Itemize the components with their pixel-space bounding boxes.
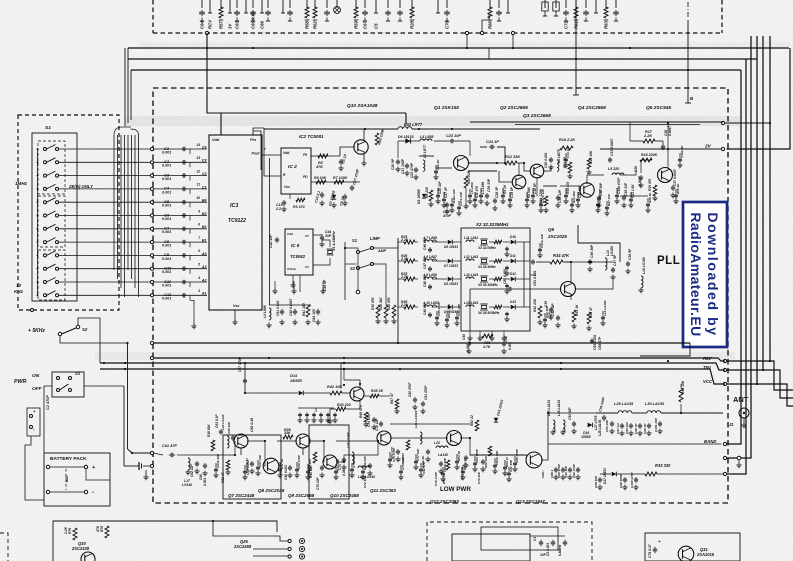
top sheet component R60 — [489, 0, 491, 8]
svg-text:R24 680: R24 680 — [572, 191, 576, 203]
svg-text:0.001: 0.001 — [162, 164, 171, 168]
inductor L9 L889 — [424, 277, 437, 279]
svg-text:C38 5P: C38 5P — [628, 248, 632, 260]
resistor R41 180 — [306, 305, 310, 317]
extra TX component R37 1K — [279, 462, 281, 467]
capacitor C71 0.35 — [343, 457, 345, 459]
resistor R26 2.3K — [404, 259, 415, 263]
capacitor C34 470P — [446, 202, 448, 204]
svg-text:33P: 33P — [325, 234, 332, 238]
top sheet component C66 — [261, 0, 263, 8]
extra TX component C67 33P — [257, 460, 259, 465]
svg-text:R44b 220: R44b 220 — [363, 456, 367, 470]
resistor R18 220K — [640, 158, 652, 162]
op-amp IC1 TC9122 programmable divider — [209, 135, 262, 310]
svg-text:R6 10K: R6 10K — [314, 176, 327, 180]
capacitor C37 5P — [612, 267, 614, 269]
svg-text:+ 5KHz: + 5KHz — [28, 328, 45, 334]
svg-text:C3: C3 — [202, 159, 207, 163]
capacitor C44 33P — [321, 235, 323, 237]
extra component C18 8P — [532, 188, 534, 193]
wire - crystal bank output to C51 — [530, 274, 536, 276]
svg-text:C73 33P: C73 33P — [336, 458, 340, 471]
wire - C24 links — [480, 146, 487, 148]
node - board edge terminal row 7 — [150, 227, 153, 230]
switch S1 pole row 9 — [44, 254, 47, 257]
wire - top right small jog — [488, 48, 490, 59]
top sheet component R57 — [220, 0, 222, 8]
svg-text:R55 1K: R55 1K — [676, 183, 680, 194]
wire - IC3 X7 connections — [313, 234, 322, 235]
svg-text:Q3 2SC2668: Q3 2SC2668 — [523, 113, 551, 119]
wire - y122 feed line — [470, 121, 723, 123]
wire - IC3 Vss ground stub — [292, 275, 294, 284]
svg-text:R44 470: R44 470 — [566, 182, 570, 194]
resistor R46b 47 vertical — [446, 460, 450, 470]
svg-text:0.001: 0.001 — [162, 257, 171, 261]
capacitor C35 33P — [623, 195, 625, 197]
resistor R3 470 — [296, 198, 305, 202]
svg-text:R20 41K: R20 41K — [379, 297, 383, 310]
op-amp IC3 TC5082 reference divider — [285, 229, 313, 275]
svg-text:0.001: 0.001 — [162, 217, 171, 221]
transistor Q8 2SC2026 (shield box around Q7/Q8) — [223, 435, 281, 499]
resistor R19 470 vertical — [653, 185, 657, 196]
capacitor C3 0.001 — [154, 175, 207, 177]
svg-text:C61 47P: C61 47P — [162, 444, 177, 448]
svg-text:Q10 2SC2458: Q10 2SC2458 — [330, 493, 359, 498]
wire - PWR switch to board — [84, 385, 124, 387]
capacitor C38 5P — [627, 261, 629, 263]
svg-text:Q7 2SC2448: Q7 2SC2448 — [228, 493, 255, 498]
resistor R7 100K — [334, 180, 344, 184]
svg-text:X5 36.16MHz: X5 36.16MHz — [477, 283, 498, 287]
capacitor C6 0.001 — [154, 215, 207, 217]
svg-text:C2 470P: C2 470P — [46, 395, 50, 410]
svg-text:Q13 2SC1947: Q13 2SC1947 — [516, 499, 545, 504]
capacitor C17 470P — [351, 185, 353, 187]
extra TX component R51 470 — [389, 452, 391, 457]
svg-text:C55 470P: C55 470P — [437, 301, 441, 316]
switch S1 pole row 5 — [44, 201, 47, 204]
top sheet component (unlabeled) — [595, 0, 597, 8]
resistor trim row 3 — [494, 277, 502, 280]
resistor R40 82K vertical — [313, 452, 317, 463]
diode D17 15553 — [612, 472, 617, 477]
svg-text:D17 15553: D17 15553 — [603, 468, 607, 484]
svg-text:C85b 10P: C85b 10P — [443, 457, 447, 472]
svg-text:C99 7P: C99 7P — [643, 423, 647, 434]
svg-text:0.0047: 0.0047 — [638, 176, 642, 186]
svg-text:L11 L842: L11 L842 — [464, 236, 478, 240]
svg-text:R81 47: R81 47 — [221, 472, 225, 483]
svg-text:D11: D11 — [510, 254, 516, 258]
wire - T5V extension and drop x780 — [727, 370, 793, 398]
svg-text:Q12 2SC2083: Q12 2SC2083 — [430, 499, 459, 504]
inductor L18 LS140 vertical — [227, 436, 229, 448]
resistor R81 47 vertical — [226, 460, 230, 470]
svg-text:8: 8 — [198, 223, 200, 227]
switch S1 outer box — [32, 133, 77, 301]
capacitor C5 0.001 — [154, 201, 207, 203]
node - small jack below BAND — [737, 456, 741, 460]
svg-text:33K: 33K — [284, 431, 291, 435]
svg-text:C67: C67 — [363, 20, 368, 29]
svg-text:C71: C71 — [564, 20, 569, 29]
inductor L10 L887 — [424, 305, 437, 307]
extra component C27 3P — [443, 192, 445, 197]
wire - row 8 to board edge — [59, 241, 151, 243]
wire - crystal row 1 — [398, 241, 404, 243]
capacitor C94 100P — [603, 415, 605, 417]
extra RF component R29 56 — [647, 198, 649, 202]
wire - main board dashed outline — [153, 88, 728, 503]
resistor R45 39 — [370, 394, 379, 398]
ground - Q6 bias — [539, 320, 541, 323]
wire - Q6 collector tank — [565, 262, 571, 283]
extra TX component R54 47 — [504, 460, 506, 465]
capacitor C74 470P — [373, 417, 375, 419]
svg-text:2SC2458: 2SC2458 — [233, 544, 252, 549]
resistor R34 47K — [550, 260, 563, 264]
wire - mic sheet dashed outline — [427, 522, 592, 561]
node - bus junction dots — [206, 47, 208, 49]
svg-text:R76: R76 — [68, 528, 72, 534]
svg-text:TC5082: TC5082 — [290, 254, 306, 259]
svg-text:L32 LR77: L32 LR77 — [404, 122, 423, 127]
svg-text:C21 100P: C21 100P — [401, 158, 405, 174]
capacitor C49 68P — [429, 312, 431, 314]
top sheet component C65 0.04 — [252, 0, 254, 8]
svg-text:L6 L899: L6 L899 — [470, 182, 474, 194]
svg-text:10: 10 — [16, 283, 22, 288]
ground - Q6 tank — [589, 267, 591, 270]
inductor L29 LA135 — [618, 411, 632, 413]
svg-text:R46 470: R46 470 — [359, 405, 363, 418]
wire - right bus vertical x757 (VCC) — [756, 36, 758, 384]
ground - driver stage — [365, 422, 367, 425]
svg-text:R43 220: R43 220 — [337, 403, 351, 407]
switch S1 pole row 11 — [44, 281, 47, 284]
svg-text:C88 /: C88 / — [541, 469, 545, 478]
svg-text:R8 56K: R8 56K — [527, 186, 531, 198]
svg-text:L18 L841: L18 L841 — [464, 273, 479, 277]
top sheet component C5 — [375, 0, 377, 8]
wire - audio sheet top edge — [53, 521, 277, 561]
wire - Q13 output to filter — [541, 413, 596, 460]
switch S1 pole row 1 — [44, 148, 47, 151]
inductor L7 L899 — [424, 240, 437, 242]
transistor Q14 driver — [350, 387, 364, 401]
wire - base feeds Q2 Q3 — [499, 171, 513, 182]
capacitor C78 0.47 — [654, 547, 656, 549]
svg-text:Vdd: Vdd — [283, 151, 290, 155]
svg-text:C65 12P: C65 12P — [227, 421, 231, 434]
svg-text:R53b 47: R53b 47 — [463, 458, 467, 470]
switch S1 pole row 6 — [44, 214, 47, 217]
svg-text:R51 470: R51 470 — [390, 447, 394, 459]
resistor R10 22K vertical — [464, 176, 468, 188]
svg-text:C53 0.001: C53 0.001 — [593, 334, 597, 350]
svg-text:R10 22K: R10 22K — [467, 170, 471, 184]
inductor L19 LS140 vertical — [352, 452, 354, 464]
extra TX component C87 15P — [508, 467, 510, 471]
svg-text:C98 7P: C98 7P — [634, 423, 638, 434]
wire - VCC extension and drop x787 — [727, 384, 793, 406]
svg-text:L30 LA130: L30 LA130 — [645, 402, 665, 406]
connector jack plug symbol — [124, 465, 139, 467]
svg-text:L16 LS160: L16 LS160 — [642, 257, 646, 274]
resistor R6 10K — [316, 180, 326, 184]
extra PLL component C51b 12P — [539, 243, 541, 247]
svg-text:R52 22: R52 22 — [470, 415, 474, 426]
svg-text:Q10 2SA1048: Q10 2SA1048 — [347, 103, 378, 109]
ground - C44 — [321, 242, 323, 245]
wire - TX input row — [188, 454, 235, 456]
svg-text:R29 56: R29 56 — [648, 193, 652, 203]
svg-text:Q6: Q6 — [548, 227, 555, 232]
svg-text:R45 39: R45 39 — [371, 389, 383, 393]
svg-text:X6 36.505MHz: X6 36.505MHz — [477, 311, 500, 315]
node - terminal 2V x723 y149 — [721, 147, 724, 150]
capacitor C65 12P — [232, 435, 234, 437]
svg-text:0.001: 0.001 — [162, 204, 171, 208]
resistor trim row 1 — [494, 240, 502, 243]
svg-text:C47b 12P: C47b 12P — [541, 188, 545, 203]
capacitor C80 470P — [414, 397, 416, 399]
capacitor C98b 10P — [599, 477, 601, 479]
transistor Q5 — [658, 168, 673, 183]
svg-text:R12 33K: R12 33K — [505, 155, 520, 159]
resistor R30 47K vertical — [376, 305, 380, 318]
svg-text:C83 100P: C83 100P — [475, 448, 479, 463]
inductor L26 LA121 vertical — [563, 420, 565, 432]
svg-text:R59: R59 — [354, 20, 359, 29]
svg-text:C89 470P: C89 470P — [557, 463, 561, 478]
top sheet component (unlabeled) — [555, 0, 557, 8]
op-amp IC2 TC5081 phase detector — [281, 148, 311, 194]
svg-text:C27 3P: C27 3P — [444, 186, 448, 198]
capacitor C92 470P — [577, 467, 579, 469]
svg-text:2SA1015: 2SA1015 — [696, 552, 715, 557]
extra TX component C64b 10P — [215, 463, 217, 467]
svg-text:470P: 470P — [442, 214, 452, 218]
capacitor C24 1P — [489, 146, 491, 148]
svg-text:C96 210: C96 210 — [625, 422, 629, 434]
diode D3 15V59 — [332, 195, 336, 199]
wire - R8V extension and drop x774 — [727, 361, 793, 390]
extra PLL component C56 33P — [456, 311, 458, 315]
wire - battery feed — [43, 408, 45, 453]
capacitor C82 470P — [427, 449, 429, 451]
transistor Q3 — [530, 164, 544, 178]
transistor Q10 2SA1048 — [354, 140, 368, 154]
svg-text:R11b 100: R11b 100 — [452, 189, 456, 203]
svg-text:D5 16555: D5 16555 — [417, 189, 421, 204]
svg-text:Vdd: Vdd — [287, 232, 293, 236]
wire - row 9 to board edge — [59, 254, 151, 256]
svg-text:2.2K: 2.2K — [400, 275, 409, 279]
switch S1 inner dashed group 2 — [38, 196, 65, 247]
wire - row 4 to board edge — [59, 188, 151, 190]
ground - R36 area — [468, 349, 470, 352]
inductor L4 L899 vertical — [269, 308, 271, 320]
inductor L5 220 — [612, 173, 624, 175]
svg-text:D13: D13 — [510, 300, 516, 304]
transistor Q1 FET — [454, 156, 469, 171]
diode D6 15133 — [405, 138, 410, 143]
top sheet component (unlabeled) — [507, 0, 509, 8]
capacitor C23 10P — [449, 140, 451, 142]
node - terminal on selector box bottom — [31, 309, 34, 312]
wire - S1 common bus vertical — [37, 149, 39, 295]
extra RF component R55 1K — [675, 189, 677, 193]
wire - crystal bank right common — [523, 242, 525, 307]
node - board edge terminal TX input — [150, 451, 153, 454]
svg-text:2.2K: 2.2K — [64, 526, 68, 535]
capacitor C72 10P — [380, 421, 382, 423]
svg-text:C87 15P: C87 15P — [509, 459, 513, 472]
wire - TX rail y455 extension — [470, 454, 527, 456]
wire - row 6 to board edge — [59, 215, 151, 217]
node - terminal VCC — [723, 382, 726, 385]
wire - right bus vertical x763 (T5V) — [762, 36, 764, 370]
svg-text:LS140: LS140 — [182, 483, 192, 487]
svg-text:BAT: BAT — [65, 474, 69, 482]
svg-text:B1: B1 — [202, 239, 207, 243]
capacitor C3 47P mic — [564, 540, 566, 542]
wire - row 1 to board edge — [59, 148, 151, 150]
wire - crystal row 1 inner link — [489, 241, 494, 243]
svg-text:D7 15153: D7 15153 — [444, 264, 458, 268]
svg-text:L3 L899: L3 L899 — [481, 182, 485, 194]
crystal bank enclosure box — [461, 228, 530, 331]
capacitor C66 0.001 — [204, 463, 206, 465]
wire - PLL RF line y129 with L32 — [264, 128, 398, 130]
svg-text:ZE(G) ONLY: ZE(G) ONLY — [68, 184, 94, 189]
capacitor C33 0.0047 — [609, 157, 611, 159]
ground - R30 R20 R22 — [377, 319, 379, 322]
svg-text:3: 3 — [198, 289, 200, 293]
resistor R25 2.2K — [404, 277, 415, 281]
node - board edge terminal row 8 — [150, 241, 153, 244]
transistor Q13 2SC1947 — [526, 452, 542, 468]
wire - crystal row 2 inner link — [489, 260, 494, 262]
wire - top sheet dashed left edge — [152, 0, 154, 33]
capacitor C81b 470P — [422, 401, 424, 403]
switch S1 pole row 8 — [44, 241, 47, 244]
resistor R28 2.2K — [404, 305, 415, 309]
capacitor C11 0.001 — [154, 281, 207, 283]
node - board edge terminal row 6 — [150, 214, 153, 217]
svg-text:C52 39P: C52 39P — [551, 303, 555, 316]
resistor R38 82K vertical — [211, 440, 215, 451]
svg-text:C29 33P: C29 33P — [487, 178, 491, 192]
inductor L5 L888 — [420, 139, 432, 141]
svg-text:R38 82K: R38 82K — [207, 424, 211, 437]
resistor trim row 4 — [494, 305, 502, 308]
wire - bank bottom stubs — [469, 331, 471, 337]
node - junctions on mid buses — [343, 362, 345, 364]
top sheet component R62 — [314, 0, 316, 8]
svg-text:Q1 2SK192: Q1 2SK192 — [434, 105, 459, 111]
svg-text:L14 LS160: L14 LS160 — [603, 300, 607, 316]
wire - bottom partial box left edge — [0, 533, 8, 561]
inductor L4 LW75 vertical — [557, 160, 559, 171]
resistor R34 15K vertical — [679, 388, 683, 402]
wire - crystal row 4 — [398, 306, 404, 308]
svg-text:Vss: Vss — [284, 185, 290, 189]
svg-text:R3 470: R3 470 — [293, 205, 305, 209]
svg-text:L5 220: L5 220 — [608, 167, 619, 171]
resistor R39 33K — [283, 435, 293, 439]
wire - RF interstage y171 — [468, 170, 497, 172]
transistor Q6 — [561, 282, 576, 297]
wire - mid bus y358 — [150, 356, 153, 359]
svg-text:C24 1P: C24 1P — [486, 140, 499, 144]
wire - terminal x723 y123 stub — [725, 122, 770, 124]
svg-text:R53 10: R53 10 — [457, 451, 461, 461]
svg-text:IC1: IC1 — [230, 203, 239, 209]
wire - battery to PWR switch vertical — [86, 469, 110, 480]
svg-text:2.2: 2.2 — [275, 207, 281, 211]
wire - crystal row 4 inner link — [489, 306, 494, 308]
resistor R2 47K — [318, 154, 328, 158]
resistor R76 2.2K vertical — [73, 528, 77, 540]
capacitor C101 15P — [659, 421, 661, 423]
svg-text:C2 0.001: C2 0.001 — [546, 543, 550, 556]
ground - C5 — [340, 166, 342, 169]
svg-text:C47 82P: C47 82P — [423, 256, 427, 269]
node - TX junction dots — [234, 454, 236, 456]
ground - C28 C29 — [486, 201, 488, 204]
svg-text:R16 2.2K: R16 2.2K — [559, 138, 575, 142]
extra TX component C83 100P — [474, 456, 476, 461]
wire - IC2 R input from left — [264, 128, 281, 176]
svg-text:D8 15153: D8 15153 — [444, 282, 458, 286]
svg-text:R37 1K: R37 1K — [280, 458, 284, 469]
capacitor C9 0.001 — [154, 254, 207, 256]
svg-text:6.8MHz: 6.8MHz — [558, 544, 562, 556]
capacitor C98 7P — [639, 423, 641, 425]
wire - top sheet dashed enclosure bottom edge — [153, 32, 722, 34]
svg-text:R18 220K: R18 220K — [641, 153, 658, 157]
capacitor C8 0.001 — [154, 241, 207, 243]
capacitor C95b 100P — [624, 477, 626, 479]
svg-text:C73b 1P: C73b 1P — [352, 455, 356, 468]
wire - row 5 to board edge — [59, 201, 151, 203]
svg-text:P0: P0 — [303, 153, 307, 157]
svg-text:4: 4 — [197, 276, 200, 280]
resistor R22 47K vertical — [392, 305, 396, 318]
wire - antenna line y413 — [596, 412, 618, 414]
capacitor crystal bank row 2 — [506, 266, 508, 268]
diode D8 15153 — [448, 277, 453, 282]
svg-text:Q9 2SC2668: Q9 2SC2668 — [288, 493, 315, 498]
transistor Q7 2SC2448 — [234, 434, 248, 448]
ground - Q4 stage — [569, 174, 571, 177]
svg-text:Q11 2SC363: Q11 2SC363 — [370, 488, 396, 493]
svg-text:A6: A6 — [201, 252, 208, 256]
svg-text:D6 15153: D6 15153 — [444, 245, 458, 249]
wire - 5KHz switch wiring — [60, 336, 128, 343]
svg-text:C19 5P: C19 5P — [510, 186, 514, 198]
capacitor C38 0.0047 — [662, 144, 664, 146]
svg-text:R41 180: R41 180 — [302, 303, 306, 316]
svg-text:Q4 2SC2668: Q4 2SC2668 — [578, 105, 606, 111]
capacitor C91 30P — [573, 421, 575, 423]
svg-text:R63: R63 — [604, 20, 609, 29]
